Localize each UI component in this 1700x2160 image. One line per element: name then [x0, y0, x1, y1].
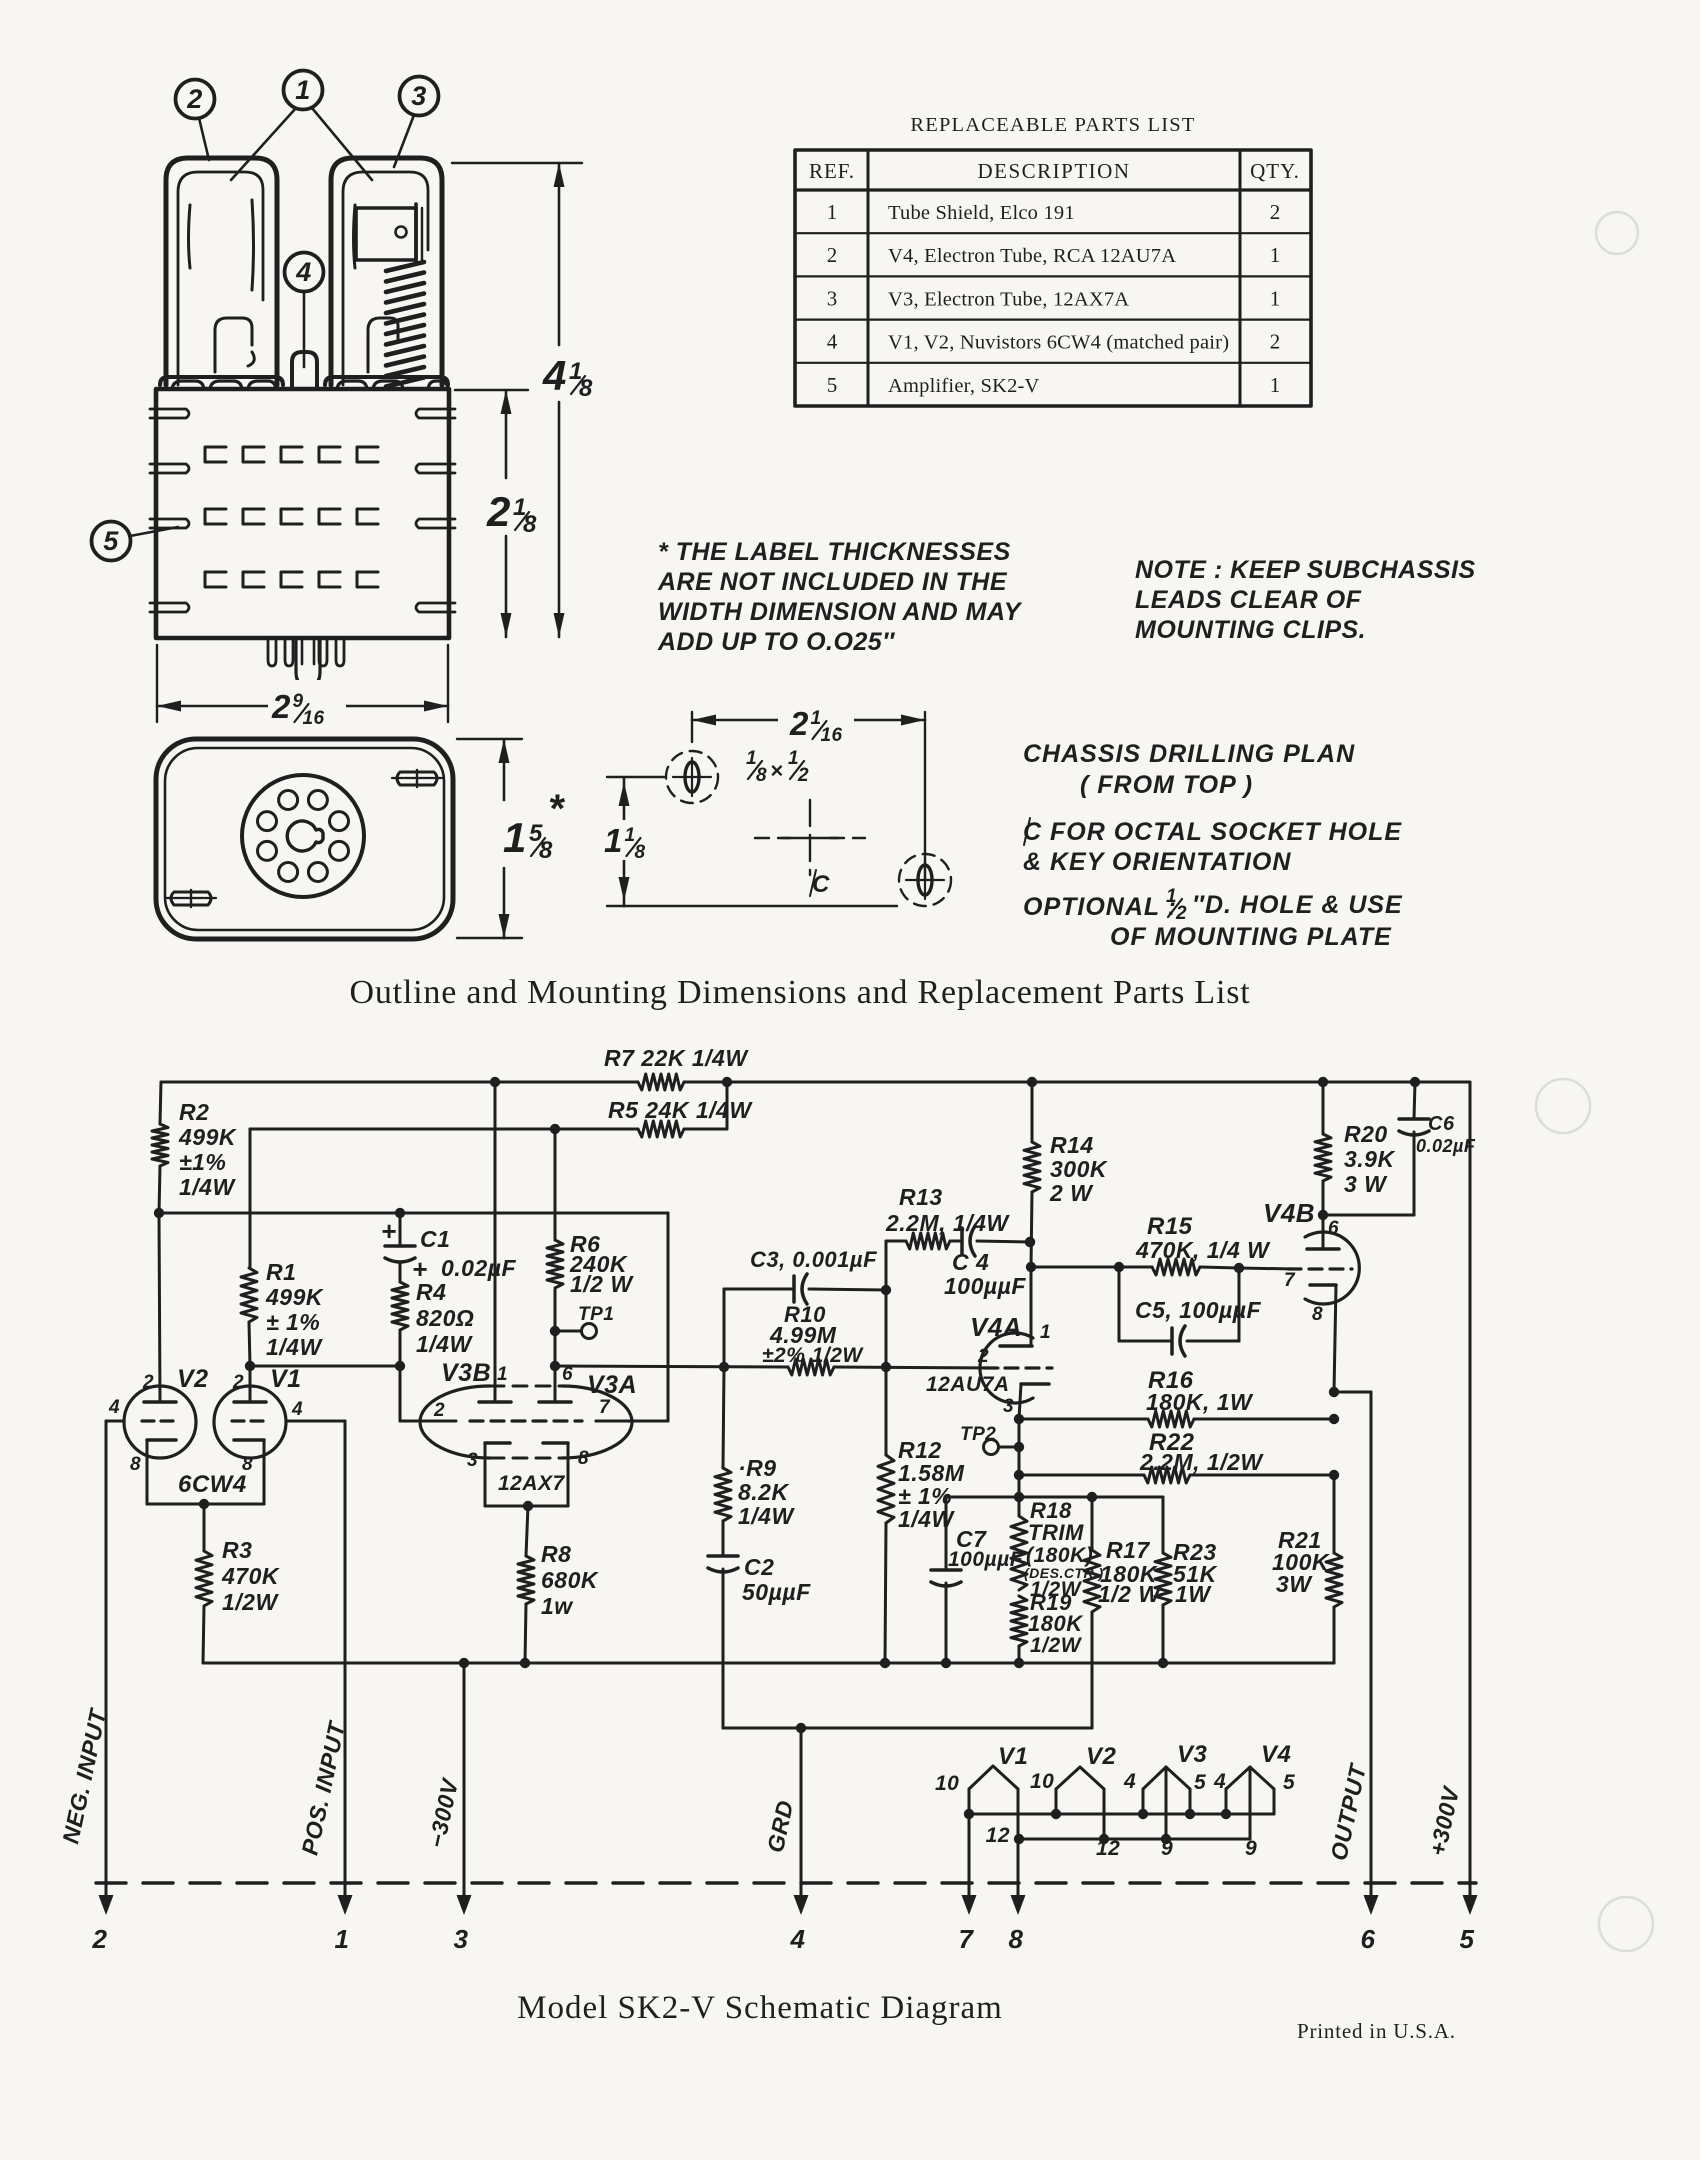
svg-text:5: 5 — [1460, 1924, 1475, 1954]
svg-text:8: 8 — [1009, 1924, 1024, 1954]
svg-text:16: 16 — [820, 725, 842, 746]
punch holes — [1536, 212, 1653, 1951]
svg-text:1/4W: 1/4W — [738, 1503, 795, 1529]
svg-text:8: 8 — [634, 842, 645, 863]
svg-text:V2: V2 — [1086, 1743, 1117, 1770]
capacitor C2 — [708, 1554, 811, 1728]
tube V2 6CW4 — [106, 1213, 209, 1504]
balloon callout 1 — [231, 71, 372, 181]
svg-text:V3: V3 — [1177, 1741, 1208, 1768]
svg-text:ADD UP TO O.O25″: ADD UP TO O.O25″ — [657, 628, 895, 656]
svg-text:±2% 1/2W: ±2% 1/2W — [762, 1344, 864, 1367]
svg-text:V4B: V4B — [1263, 1198, 1315, 1228]
test point TP1 — [550, 1304, 615, 1339]
resistor R20 — [1315, 1082, 1395, 1220]
svg-text:C3, 0.001µF: C3, 0.001µF — [750, 1247, 877, 1272]
wire V4A cathode column — [1018, 1419, 1021, 1516]
svg-text:V1: V1 — [998, 1743, 1028, 1770]
svg-text:V3B: V3B — [441, 1359, 491, 1387]
svg-text:R4: R4 — [416, 1279, 446, 1305]
svg-text:1/2 W: 1/2 W — [570, 1271, 634, 1297]
terminal +300V 5 — [1424, 1082, 1477, 1954]
capacitor C4 — [944, 1226, 1035, 1299]
svg-text:OF MOUNTING PLATE: OF MOUNTING PLATE — [1110, 923, 1392, 951]
svg-text:CHASSIS DRILLING PLAN: CHASSIS DRILLING PLAN — [1023, 740, 1355, 768]
svg-text:C2: C2 — [744, 1554, 774, 1580]
svg-text:C 4: C 4 — [952, 1249, 989, 1275]
terminal GRD 4 — [762, 1728, 809, 1954]
resistor R7 — [604, 1045, 749, 1090]
svg-text:R17: R17 — [1106, 1537, 1150, 1563]
svg-text:1/4W: 1/4W — [416, 1331, 473, 1357]
wire B+ top rail — [161, 1077, 1470, 1087]
svg-text:Amplifier, SK2-V: Amplifier, SK2-V — [888, 375, 1040, 397]
resistor R13 — [885, 1184, 1010, 1290]
svg-text:V4, Electron Tube, RCA 12AU7A: V4, Electron Tube, RCA 12AU7A — [888, 245, 1176, 267]
tube shield left — [160, 158, 283, 389]
capacitor C3 — [724, 1247, 891, 1367]
svg-text:6: 6 — [1361, 1924, 1376, 1954]
svg-text:C FOR OCTAL SOCKET HOLE: C FOR OCTAL SOCKET HOLE — [1023, 818, 1402, 846]
terminal 8 heater — [1009, 1839, 1026, 1954]
wire heater bus pin12 — [1014, 1834, 1250, 1844]
resistor R8 — [518, 1506, 599, 1663]
svg-text:WIDTH DIMENSION AND MAY: WIDTH DIMENSION AND MAY — [658, 598, 1023, 626]
svg-text:0.02µF: 0.02µF — [441, 1255, 517, 1281]
replaceable parts list table — [795, 114, 1311, 406]
svg-text:R13: R13 — [899, 1184, 943, 1210]
svg-text:V1: V1 — [270, 1365, 302, 1393]
socket mounting plate bottom view — [156, 739, 453, 939]
svg-text:2: 2 — [789, 705, 809, 742]
wire heater bus pin10 — [964, 1809, 1274, 1819]
resistor R6 — [547, 1129, 634, 1331]
svg-text:3: 3 — [411, 81, 427, 111]
wire divider top — [946, 1492, 1163, 1502]
svg-text:1/2W: 1/2W — [1030, 1634, 1083, 1657]
svg-text:V3A: V3A — [587, 1371, 637, 1399]
svg-text:2: 2 — [92, 1924, 108, 1954]
svg-text:2: 2 — [1175, 903, 1187, 924]
heater pins V2 — [1030, 1743, 1120, 1860]
tube V3 12AX7 — [420, 1359, 668, 1506]
svg-text:C5, 100µµF: C5, 100µµF — [1135, 1297, 1262, 1323]
balloon callout 2 — [176, 80, 215, 161]
svg-text:6: 6 — [1328, 1218, 1339, 1239]
svg-text:6: 6 — [562, 1364, 573, 1385]
capacitor C5 — [1119, 1267, 1262, 1356]
svg-text:1/2 W: 1/2 W — [1098, 1581, 1162, 1607]
svg-text:16: 16 — [302, 708, 324, 729]
dimension 4-1/8 — [452, 163, 593, 637]
resistor R19 — [1011, 1590, 1084, 1663]
note: keep subchassis leads clear — [1135, 556, 1476, 644]
svg-text:*: * — [548, 787, 566, 831]
svg-text:2: 2 — [1270, 330, 1281, 354]
svg-text:R2: R2 — [179, 1099, 209, 1125]
svg-text:7: 7 — [959, 1924, 975, 1954]
6CW4 cathode box — [147, 1471, 264, 1509]
svg-text:2.2M, 1/2W: 2.2M, 1/2W — [1139, 1449, 1264, 1475]
svg-text:″D. HOLE & USE: ″D. HOLE & USE — [1192, 891, 1403, 919]
wire ground spur — [723, 1723, 1092, 1733]
svg-text:R7 22K 1/4W: R7 22K 1/4W — [604, 1045, 749, 1071]
mechanical outline drawing of SK2-V amplifier module — [92, 71, 594, 940]
svg-text:4: 4 — [542, 352, 567, 399]
heater pins V4 — [1213, 1741, 1295, 1860]
dimension 2-1/8 — [455, 390, 537, 637]
svg-text:4: 4 — [1213, 1770, 1226, 1793]
svg-text:8.2K: 8.2K — [738, 1479, 789, 1505]
svg-text:1: 1 — [1270, 243, 1281, 267]
resistor R12 — [878, 1290, 965, 1663]
svg-text:7: 7 — [599, 1397, 611, 1418]
svg-text:3: 3 — [827, 286, 838, 310]
capacitor C1 — [381, 1213, 517, 1284]
wire R5 feed — [250, 1082, 727, 1134]
svg-text:4: 4 — [827, 330, 838, 354]
svg-text:1w: 1w — [541, 1593, 574, 1619]
svg-text:470K, 1/4 W: 470K, 1/4 W — [1135, 1237, 1271, 1263]
svg-text:C6: C6 — [1428, 1113, 1455, 1135]
svg-text:1: 1 — [295, 75, 311, 105]
svg-text:±1%: ±1% — [179, 1149, 226, 1175]
svg-text:12AX7: 12AX7 — [498, 1472, 566, 1495]
svg-text:R15: R15 — [1147, 1213, 1193, 1240]
svg-text:499K: 499K — [265, 1284, 324, 1310]
note: label thicknesses — [657, 538, 1023, 656]
svg-text:( FROM TOP ): ( FROM TOP ) — [1080, 771, 1253, 799]
svg-text:3 W: 3 W — [1344, 1171, 1388, 1197]
svg-text:2.2M, 1/4W: 2.2M, 1/4W — [885, 1210, 1010, 1236]
svg-text:1: 1 — [604, 822, 623, 859]
svg-text:V4: V4 — [1261, 1741, 1291, 1768]
resistor R5 — [608, 1097, 753, 1137]
test point TP2 — [960, 1424, 1024, 1455]
svg-text:+: + — [381, 1216, 397, 1246]
resistor R21 — [1272, 1475, 1342, 1663]
svg-text:2: 2 — [486, 488, 511, 535]
svg-text:5: 5 — [103, 526, 119, 556]
svg-text:LEADS CLEAR OF: LEADS CLEAR OF — [1135, 586, 1362, 614]
svg-text:2: 2 — [142, 1372, 154, 1393]
svg-text:4: 4 — [790, 1924, 806, 1954]
terminal 7 heater — [959, 1814, 977, 1954]
svg-text:1/4W: 1/4W — [179, 1174, 236, 1200]
capacitor C7 — [931, 1497, 1024, 1663]
svg-text:REF.: REF. — [809, 159, 855, 183]
svg-text:1: 1 — [1270, 373, 1281, 397]
svg-text:5: 5 — [1283, 1771, 1295, 1794]
svg-text:Printed in U.S.A.: Printed in U.S.A. — [1297, 2019, 1456, 2043]
wire V3B plate lead — [494, 1082, 497, 1402]
svg-text:OPTIONAL :: OPTIONAL : — [1023, 893, 1177, 921]
heater pins V3 — [1123, 1741, 1208, 1860]
tube V4A 12AU7A — [926, 1267, 1052, 1419]
svg-text:3: 3 — [1003, 1396, 1014, 1417]
svg-text:12: 12 — [986, 1824, 1010, 1847]
terminal OUTPUT 6 — [1325, 1761, 1378, 1954]
svg-text:2: 2 — [232, 1372, 244, 1393]
svg-text:1: 1 — [1040, 1322, 1051, 1343]
resistor R3 — [196, 1504, 280, 1663]
svg-text:1: 1 — [497, 1364, 508, 1385]
svg-text:V3, Electron Tube, 12AX7A: V3, Electron Tube, 12AX7A — [888, 288, 1129, 310]
svg-text:3: 3 — [454, 1924, 469, 1954]
svg-text:180K: 180K — [1028, 1611, 1084, 1636]
svg-text:1: 1 — [1270, 286, 1281, 310]
svg-text:C1: C1 — [420, 1226, 450, 1252]
svg-text:NOTE : KEEP SUBCHASSIS: NOTE : KEEP SUBCHASSIS — [1135, 556, 1476, 584]
svg-text:8: 8 — [130, 1454, 141, 1475]
svg-text:12AU7A: 12AU7A — [926, 1373, 1010, 1396]
svg-text:1: 1 — [335, 1924, 350, 1954]
octal socket pins — [268, 638, 344, 686]
resistor R22 — [1014, 1429, 1339, 1483]
svg-text:R5 24K 1/4W: R5 24K 1/4W — [608, 1097, 753, 1123]
svg-text:R1: R1 — [266, 1259, 296, 1285]
wire common bus — [203, 1658, 1334, 1668]
svg-text:3W: 3W — [1276, 1571, 1313, 1597]
svg-text:TP1: TP1 — [578, 1304, 614, 1325]
svg-text:2: 2 — [827, 243, 838, 267]
svg-text:8: 8 — [579, 375, 593, 402]
resistor R23 — [1155, 1497, 1218, 1663]
balloon callout 4 — [285, 253, 324, 368]
wire V3B grid lead — [400, 1366, 456, 1421]
svg-text:Tube Shield, Elco 191: Tube Shield, Elco 191 — [888, 202, 1075, 224]
balloon callout 5 — [92, 522, 179, 561]
dimension 2-9/16 — [157, 645, 448, 729]
resistor R18 — [1011, 1498, 1104, 1601]
svg-text:& KEY ORIENTATION: & KEY ORIENTATION — [1023, 848, 1291, 876]
svg-text:2: 2 — [433, 1400, 445, 1421]
svg-text:TRIM: TRIM — [1028, 1520, 1084, 1545]
svg-text:7: 7 — [1284, 1270, 1296, 1291]
svg-text:R3: R3 — [222, 1537, 252, 1563]
resistor R14 — [1024, 1082, 1108, 1272]
svg-text:8: 8 — [756, 765, 767, 786]
svg-text:8: 8 — [1312, 1304, 1323, 1325]
resistor R1 — [241, 1129, 324, 1366]
svg-text:3.9K: 3.9K — [1344, 1146, 1395, 1172]
svg-text:680K: 680K — [541, 1567, 599, 1593]
svg-text:820Ω: 820Ω — [416, 1305, 474, 1331]
tube V4B 12AU7A — [1263, 1198, 1359, 1392]
drilling plan text — [1023, 740, 1403, 951]
svg-text:Model SK2-V Schematic Diagram: Model SK2-V Schematic Diagram — [517, 1990, 1003, 2026]
svg-text:2: 2 — [186, 84, 203, 114]
resistor R2 — [152, 1082, 237, 1213]
nuvistor tab item 4 — [292, 352, 317, 389]
svg-text:TP2: TP2 — [960, 1424, 996, 1445]
chassis drilling plan — [600, 698, 951, 906]
svg-text:2: 2 — [271, 688, 291, 725]
resistor R15 — [1031, 1213, 1295, 1275]
svg-text:8: 8 — [523, 511, 537, 538]
wire output takeoff — [1329, 1387, 1371, 1895]
resistor R16 — [1014, 1367, 1339, 1427]
svg-text:1/4W: 1/4W — [266, 1334, 323, 1360]
svg-text:ARE NOT INCLUDED IN THE: ARE NOT INCLUDED IN THE — [657, 568, 1008, 596]
svg-text:470K: 470K — [221, 1563, 280, 1589]
svg-text:R8: R8 — [541, 1541, 571, 1567]
svg-text:4: 4 — [108, 1397, 120, 1418]
svg-text:2: 2 — [1270, 200, 1281, 224]
svg-text:4: 4 — [1123, 1770, 1136, 1793]
svg-text:4: 4 — [291, 1399, 303, 1420]
svg-text:± 1%: ± 1% — [266, 1309, 320, 1335]
svg-text:180K, 1W: 180K, 1W — [1146, 1389, 1254, 1415]
svg-text:R20: R20 — [1344, 1121, 1388, 1147]
chassis dashed line — [96, 1881, 1476, 1884]
svg-text:V2: V2 — [177, 1365, 209, 1393]
svg-text:·R9: ·R9 — [738, 1455, 777, 1481]
wire plate bus y1213 — [154, 1208, 668, 1421]
svg-text:Outline and Mounting Dimension: Outline and Mounting Dimensions and Repl… — [350, 974, 1251, 1011]
svg-text:50µµF: 50µµF — [742, 1579, 811, 1605]
resistor R10 — [762, 1302, 998, 1375]
resistor R9 — [715, 1367, 795, 1556]
terminal -300V 3 — [423, 1663, 471, 1954]
dimension 1-5/8 — [457, 739, 566, 938]
resistor R4 — [392, 1262, 474, 1366]
svg-text:MOUNTING CLIPS.: MOUNTING CLIPS. — [1135, 616, 1366, 644]
svg-text:1W: 1W — [1175, 1581, 1212, 1607]
svg-text:QTY.: QTY. — [1250, 159, 1300, 183]
svg-text:5: 5 — [827, 373, 838, 397]
svg-text:5: 5 — [1194, 1771, 1206, 1794]
svg-text:6CW4: 6CW4 — [178, 1471, 247, 1498]
svg-text:1: 1 — [503, 814, 527, 861]
svg-text:100µµF: 100µµF — [944, 1273, 1026, 1299]
svg-text:2: 2 — [797, 765, 809, 786]
tube shield right — [325, 158, 448, 389]
12AX7 cathode box — [485, 1472, 568, 1511]
svg-text:4: 4 — [295, 257, 312, 287]
svg-text:R14: R14 — [1050, 1132, 1094, 1158]
subchassis box item 5 — [150, 389, 455, 638]
svg-text:8: 8 — [539, 837, 553, 864]
svg-text:300K: 300K — [1050, 1156, 1108, 1182]
svg-text:2: 2 — [977, 1346, 989, 1367]
balloon callout 3 — [394, 77, 439, 168]
terminal NEG INPUT 2 — [57, 1421, 113, 1954]
heater pins V1 — [935, 1743, 1028, 1847]
svg-text:0.02µF: 0.02µF — [1416, 1136, 1476, 1156]
svg-text:V4A: V4A — [970, 1312, 1022, 1342]
svg-text:1: 1 — [827, 200, 838, 224]
svg-text:REPLACEABLE PARTS LIST: REPLACEABLE PARTS LIST — [910, 114, 1195, 136]
wire V3A plate node — [550, 1331, 788, 1402]
svg-text:DESCRIPTION: DESCRIPTION — [977, 159, 1130, 183]
terminal POS INPUT 1 — [296, 1421, 352, 1954]
svg-text:499K: 499K — [178, 1124, 237, 1150]
capacitor C6 — [1323, 1082, 1476, 1215]
svg-text:* THE LABEL THICKNESSES: * THE LABEL THICKNESSES — [658, 538, 1011, 566]
resistor R17 — [1084, 1497, 1162, 1728]
svg-text:8: 8 — [578, 1448, 589, 1469]
tube V1 6CW4 — [214, 1365, 345, 1504]
svg-text:10: 10 — [935, 1772, 959, 1795]
svg-text:3: 3 — [467, 1450, 478, 1471]
svg-text:V1, V2, Nuvistors 6CW4 (matche: V1, V2, Nuvistors 6CW4 (matched pair) — [888, 332, 1229, 354]
svg-text:10: 10 — [1030, 1770, 1054, 1793]
svg-text:1/2W: 1/2W — [222, 1589, 279, 1615]
wire V1 plate node — [245, 1361, 405, 1371]
svg-text:×: × — [770, 758, 783, 783]
svg-text:2 W: 2 W — [1049, 1180, 1094, 1206]
svg-text:(180K): (180K) — [1026, 1544, 1093, 1567]
